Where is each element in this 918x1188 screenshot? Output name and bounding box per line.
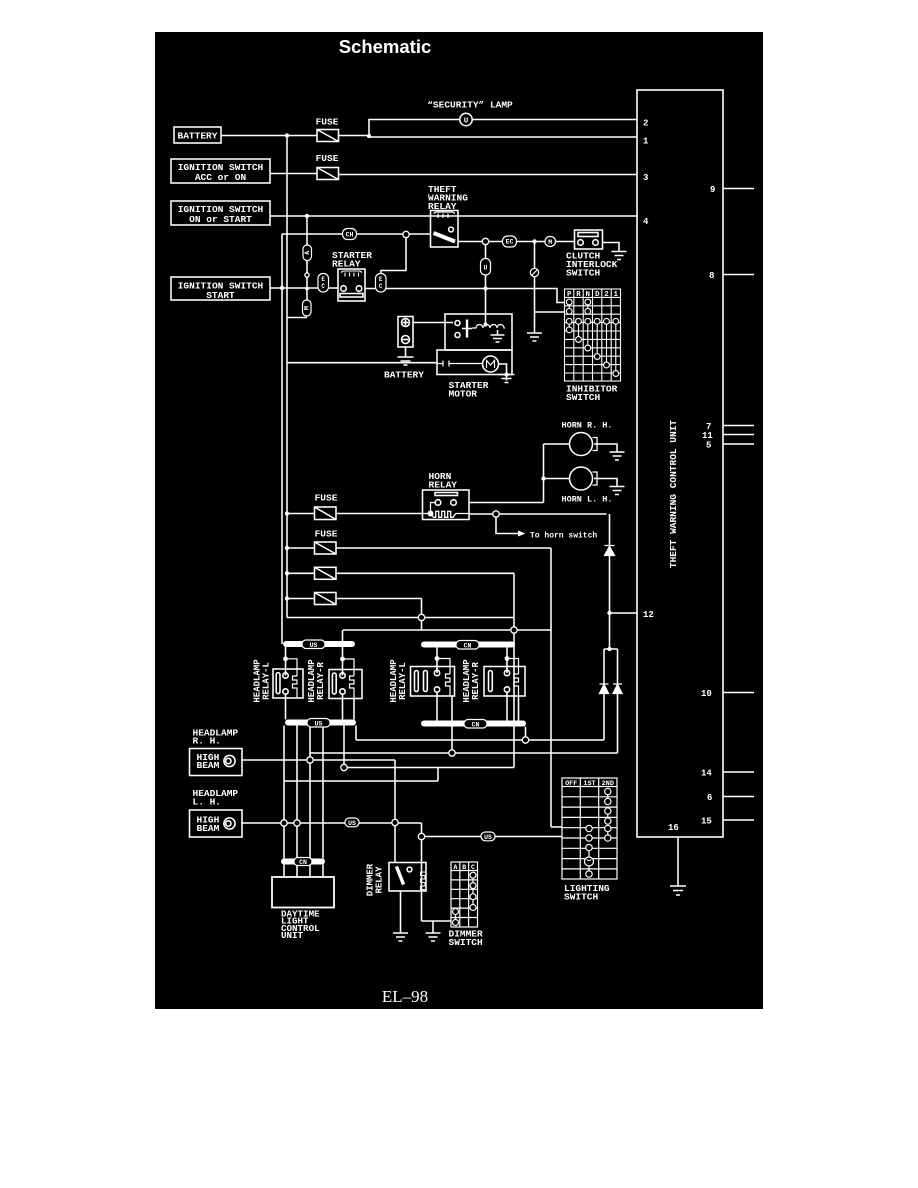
- svg-text:2ND: 2ND: [602, 780, 614, 788]
- svg-text:MOTOR: MOTOR: [449, 389, 478, 400]
- svg-text:15: 15: [701, 817, 712, 827]
- svg-text:11: 11: [702, 431, 713, 441]
- svg-text:1ST: 1ST: [583, 780, 595, 788]
- svg-text:SWITCH: SWITCH: [566, 392, 601, 403]
- svg-text:L. H.: L. H.: [193, 797, 222, 808]
- svg-text:M: M: [304, 306, 311, 310]
- svg-text:RELAY: RELAY: [428, 201, 457, 212]
- svg-text:12: 12: [643, 610, 654, 620]
- svg-text:E: E: [321, 276, 325, 283]
- svg-text:START: START: [206, 290, 235, 301]
- svg-text:16: 16: [668, 823, 679, 833]
- svg-text:C: C: [321, 283, 325, 290]
- svg-text:CN: CN: [472, 721, 480, 728]
- svg-text:P: P: [567, 291, 572, 299]
- svg-text:RELAY: RELAY: [375, 866, 385, 894]
- svg-text:“SECURITY” LAMP: “SECURITY” LAMP: [427, 100, 513, 111]
- svg-text:RELAY: RELAY: [332, 259, 361, 270]
- svg-text:14: 14: [701, 769, 712, 779]
- svg-text:THEFT WARNING CONTROL UNIT: THEFT WARNING CONTROL UNIT: [668, 420, 679, 569]
- svg-text:US: US: [310, 642, 318, 649]
- svg-text:EL–98: EL–98: [382, 987, 428, 1006]
- svg-text:CN: CN: [464, 642, 472, 649]
- svg-text:FUSE: FUSE: [316, 153, 339, 164]
- svg-text:HORN R. H.: HORN R. H.: [562, 421, 613, 431]
- svg-text:M: M: [548, 239, 552, 246]
- svg-text:FUSE: FUSE: [315, 493, 338, 504]
- svg-text:ON or START: ON or START: [189, 214, 252, 225]
- svg-text:CN: CN: [299, 859, 307, 866]
- svg-text:D: D: [595, 291, 600, 299]
- svg-text:CH: CH: [346, 232, 354, 239]
- svg-text:US: US: [484, 834, 492, 841]
- svg-text:RELAY-R: RELAY-R: [316, 662, 326, 700]
- svg-text:C: C: [471, 864, 475, 872]
- svg-text:BATTERY: BATTERY: [178, 131, 218, 142]
- svg-text:3: 3: [643, 173, 648, 183]
- svg-text:FUSE: FUSE: [315, 529, 338, 540]
- svg-text:HORN L. H.: HORN L. H.: [562, 495, 613, 505]
- svg-text:B: B: [462, 864, 466, 872]
- svg-text:2: 2: [604, 291, 609, 299]
- svg-text:U: U: [464, 118, 469, 126]
- svg-text:To horn switch: To horn switch: [530, 532, 597, 541]
- svg-text:1: 1: [643, 137, 649, 147]
- svg-text:US: US: [315, 720, 323, 727]
- svg-text:1: 1: [614, 291, 619, 299]
- svg-text:R. H.: R. H.: [193, 736, 222, 747]
- svg-text:E: E: [379, 276, 383, 283]
- svg-text:5: 5: [706, 441, 711, 451]
- svg-text:Schematic: Schematic: [339, 36, 432, 57]
- svg-text:N: N: [586, 291, 591, 299]
- svg-text:SWITCH: SWITCH: [564, 892, 599, 903]
- svg-text:C: C: [379, 283, 383, 290]
- svg-text:BATTERY: BATTERY: [384, 370, 424, 381]
- svg-text:9: 9: [710, 185, 715, 195]
- svg-text:8: 8: [709, 271, 714, 281]
- svg-text:RELAY-R: RELAY-R: [471, 662, 481, 700]
- svg-text:U: U: [484, 265, 488, 272]
- svg-text:SWITCH: SWITCH: [449, 937, 484, 948]
- svg-text:OFF: OFF: [565, 780, 577, 788]
- svg-text:FUSE: FUSE: [316, 117, 339, 128]
- svg-text:US: US: [348, 820, 356, 827]
- svg-text:RELAY-L: RELAY-L: [398, 662, 408, 700]
- svg-text:ACC or ON: ACC or ON: [195, 172, 247, 183]
- svg-text:BEAM: BEAM: [197, 823, 220, 834]
- svg-text:RELAY: RELAY: [429, 480, 458, 491]
- svg-text:4: 4: [643, 217, 649, 227]
- svg-text:A: A: [304, 251, 311, 255]
- svg-text:UNIT: UNIT: [281, 930, 304, 941]
- svg-text:SWITCH: SWITCH: [566, 268, 601, 279]
- svg-text:R: R: [576, 291, 581, 299]
- svg-text:10: 10: [701, 689, 712, 699]
- svg-text:2: 2: [643, 119, 648, 129]
- svg-text:6: 6: [707, 793, 712, 803]
- svg-text:RELAY-L: RELAY-L: [262, 662, 272, 700]
- svg-text:EC: EC: [506, 239, 514, 246]
- svg-text:BEAM: BEAM: [197, 760, 220, 771]
